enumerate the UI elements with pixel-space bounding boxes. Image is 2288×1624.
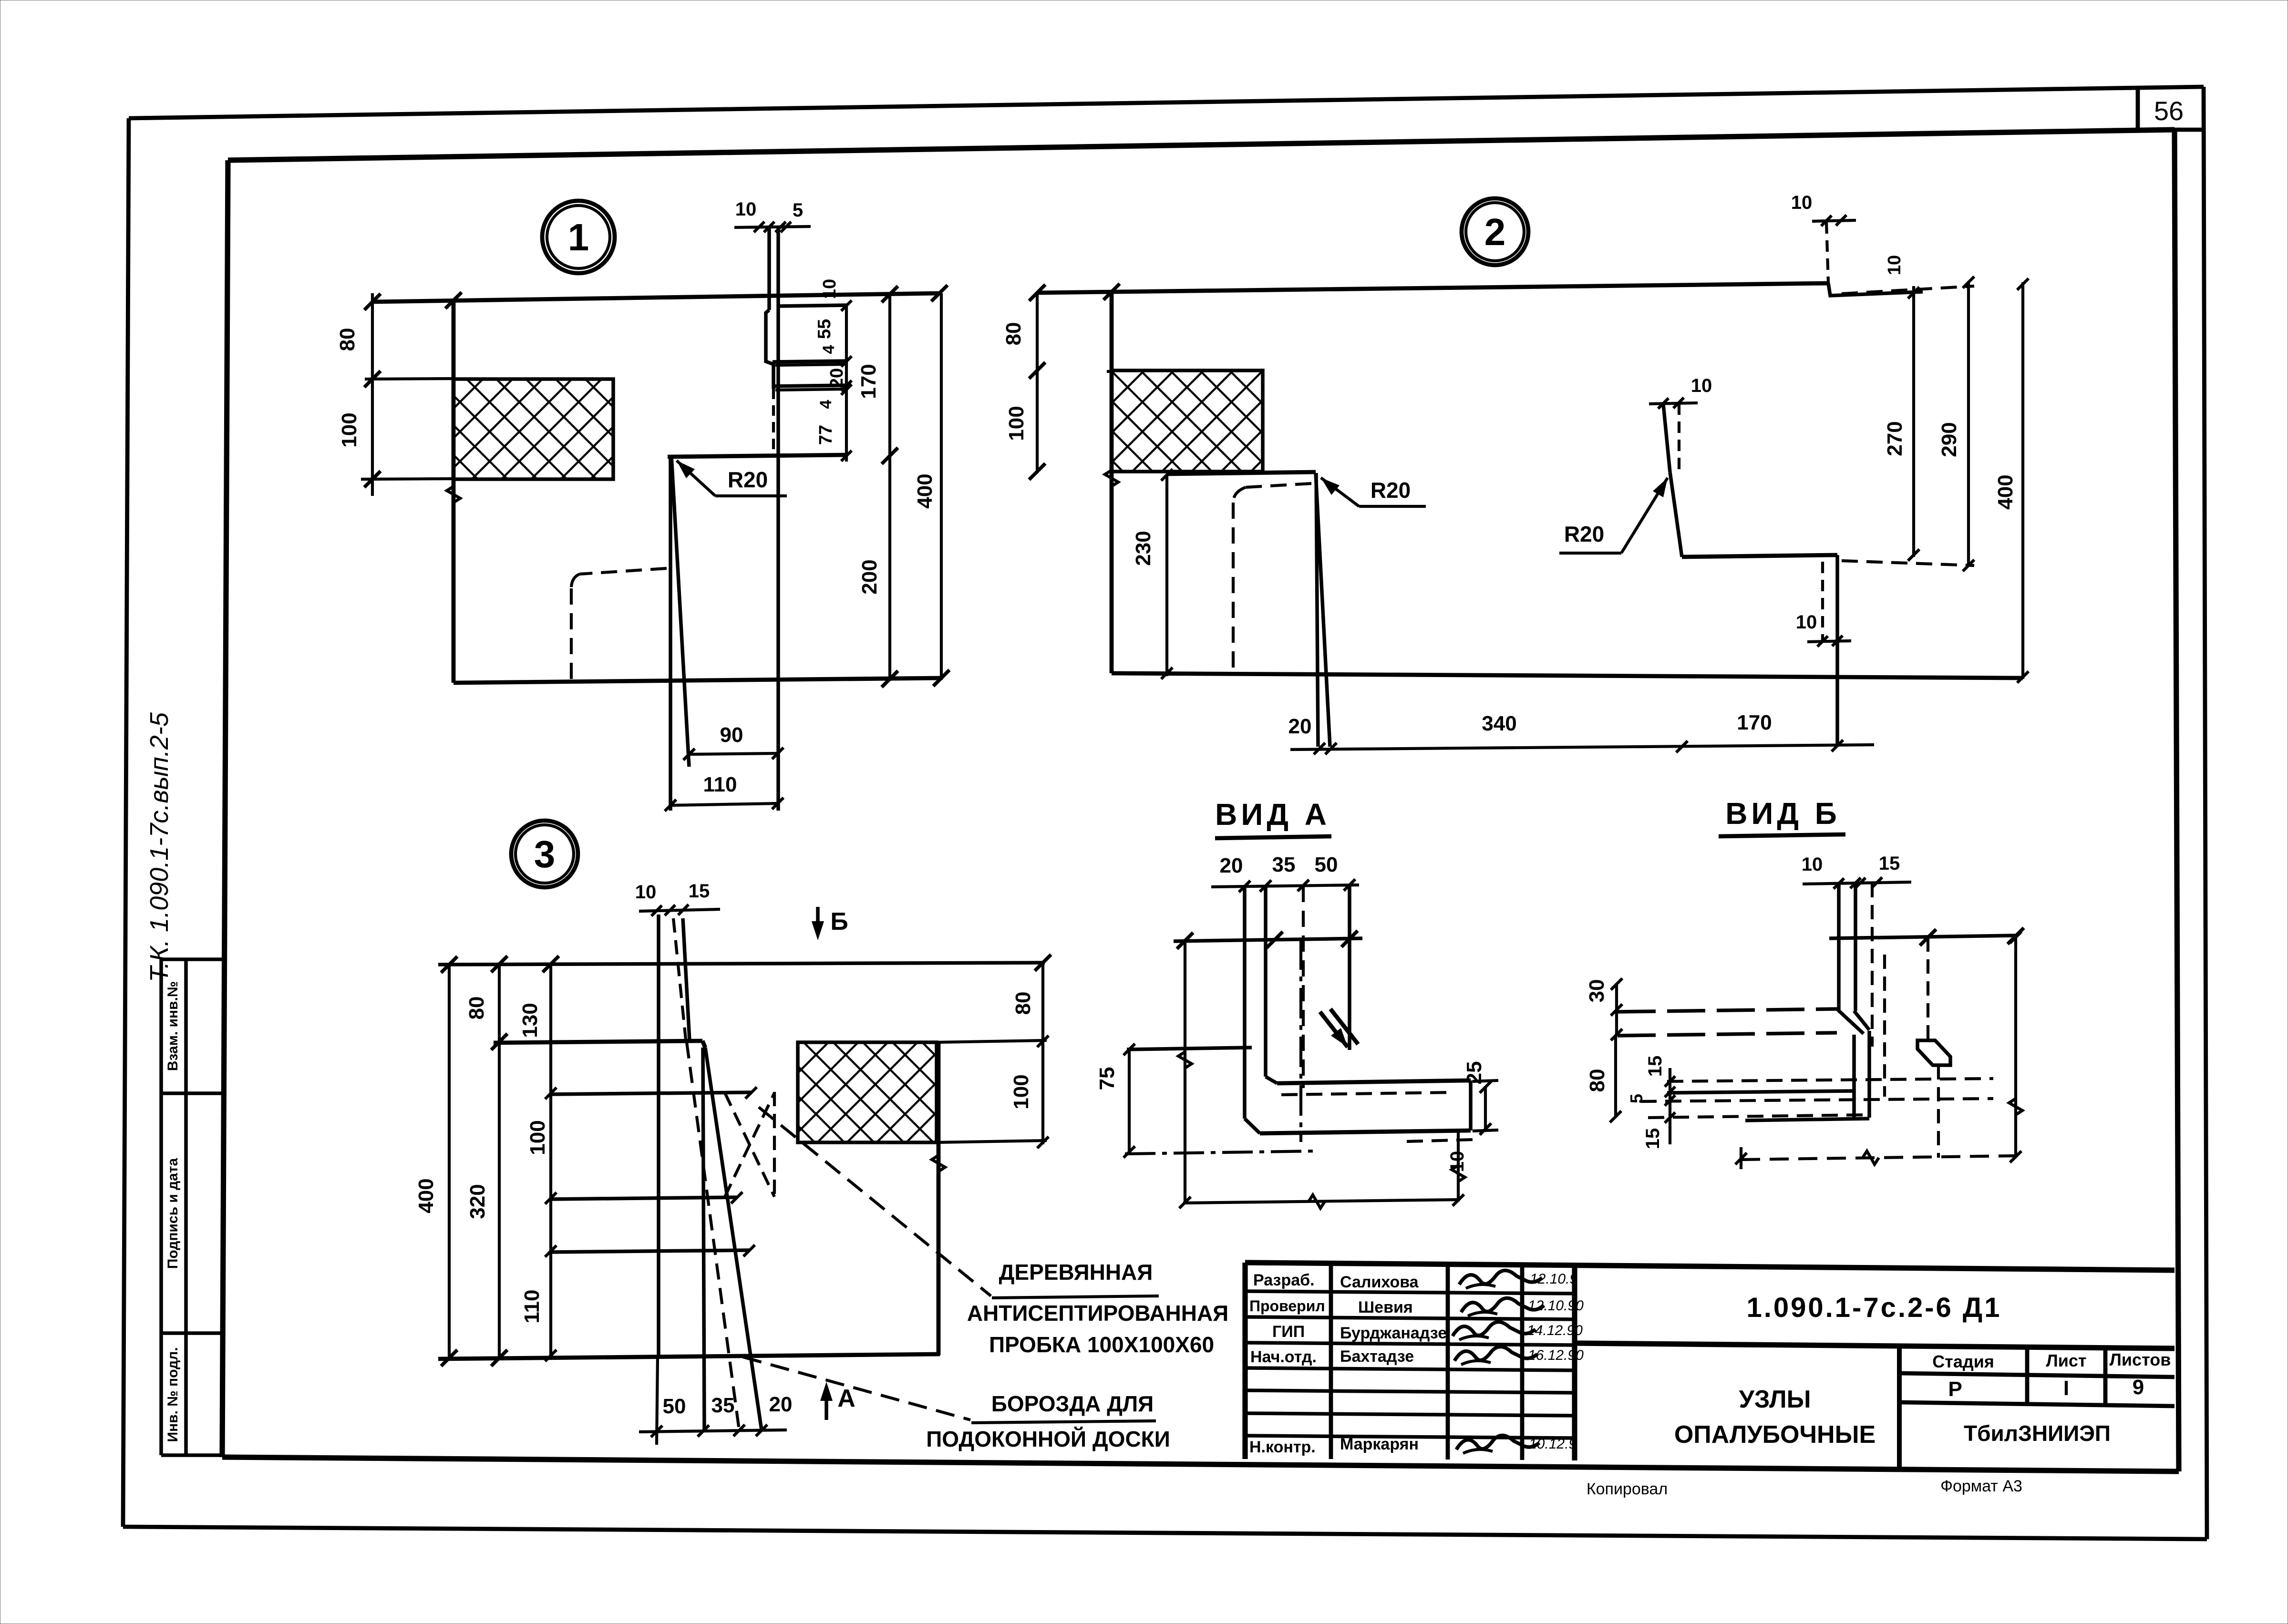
svg-text:12.10.9: 12.10.9 xyxy=(1530,1271,1577,1287)
svg-text:R20: R20 xyxy=(1371,478,1411,503)
svg-text:75: 75 xyxy=(1095,1067,1119,1090)
svg-text:230: 230 xyxy=(1132,531,1155,565)
svg-text:Разраб.: Разраб. xyxy=(1253,1271,1315,1289)
svg-text:20: 20 xyxy=(827,368,847,388)
svg-text:90: 90 xyxy=(720,723,743,747)
svg-text:4: 4 xyxy=(817,400,835,409)
svg-text:35: 35 xyxy=(711,1394,735,1417)
svg-text:3: 3 xyxy=(534,833,556,875)
svg-text:Подпись и дата: Подпись и дата xyxy=(165,1158,181,1269)
svg-text:Р: Р xyxy=(1948,1377,1962,1401)
svg-text:15: 15 xyxy=(1879,853,1900,874)
svg-text:10: 10 xyxy=(735,199,757,220)
svg-text:320: 320 xyxy=(466,1184,489,1219)
svg-text:110: 110 xyxy=(703,773,737,796)
svg-text:ГИП: ГИП xyxy=(1272,1323,1305,1341)
svg-text:10: 10 xyxy=(1802,854,1823,875)
svg-text:16.12.90: 16.12.90 xyxy=(1528,1347,1584,1363)
svg-text:25: 25 xyxy=(1463,1061,1486,1085)
svg-text:Формат А3: Формат А3 xyxy=(1940,1477,2022,1495)
svg-text:Проверил: Проверил xyxy=(1249,1297,1325,1315)
svg-text:ПОДОКОННОЙ ДОСКИ: ПОДОКОННОЙ ДОСКИ xyxy=(926,1427,1170,1451)
svg-text:4: 4 xyxy=(820,345,838,354)
svg-text:12.10.90: 12.10.90 xyxy=(1528,1298,1584,1314)
svg-text:56: 56 xyxy=(2154,96,2184,126)
svg-text:1: 1 xyxy=(568,216,589,258)
svg-text:400: 400 xyxy=(1994,474,2017,509)
svg-text:80: 80 xyxy=(1586,1069,1609,1092)
svg-text:35: 35 xyxy=(1272,853,1296,876)
svg-text:50: 50 xyxy=(663,1395,686,1418)
svg-text:400: 400 xyxy=(414,1178,438,1213)
svg-text:5: 5 xyxy=(793,200,803,221)
svg-text:130: 130 xyxy=(518,1003,542,1038)
svg-text:15: 15 xyxy=(689,881,710,902)
svg-text:Нач.отд.: Нач.отд. xyxy=(1250,1348,1317,1366)
svg-text:R20: R20 xyxy=(728,467,768,492)
svg-text:77: 77 xyxy=(816,425,836,445)
svg-text:Листов: Листов xyxy=(2110,1350,2171,1369)
svg-text:ДЕРЕВЯННАЯ: ДЕРЕВЯННАЯ xyxy=(999,1260,1153,1285)
svg-text:10: 10 xyxy=(1885,255,1905,275)
svg-text:Шевия: Шевия xyxy=(1358,1298,1413,1316)
svg-text:ОПАЛУБОЧНЫЕ: ОПАЛУБОЧНЫЕ xyxy=(1674,1421,1876,1449)
svg-text:14.12.90: 14.12.90 xyxy=(1527,1323,1583,1338)
svg-text:Н.контр.: Н.контр. xyxy=(1249,1438,1316,1456)
svg-text:Б: Б xyxy=(830,908,848,935)
svg-text:80: 80 xyxy=(465,997,488,1020)
svg-text:R20: R20 xyxy=(1564,522,1604,546)
svg-text:80: 80 xyxy=(1011,992,1035,1015)
svg-text:50: 50 xyxy=(1315,853,1338,876)
svg-text:80: 80 xyxy=(336,328,359,351)
svg-text:340: 340 xyxy=(1482,712,1516,735)
svg-text:100: 100 xyxy=(1010,1074,1033,1109)
svg-text:20: 20 xyxy=(1288,715,1312,738)
svg-text:290: 290 xyxy=(1938,422,1961,457)
svg-text:100: 100 xyxy=(1005,406,1028,441)
svg-text:Копировал: Копировал xyxy=(1587,1480,1668,1498)
svg-text:Бурджанадзе: Бурджанадзе xyxy=(1340,1324,1447,1342)
svg-text:15: 15 xyxy=(1645,1056,1666,1077)
svg-text:10: 10 xyxy=(1691,375,1712,396)
svg-text:80: 80 xyxy=(1002,322,1025,346)
svg-text:30: 30 xyxy=(1585,979,1608,1003)
svg-text:20: 20 xyxy=(769,1393,793,1416)
svg-text:УЗЛЫ: УЗЛЫ xyxy=(1739,1386,1811,1413)
svg-text:Салихова: Салихова xyxy=(1340,1273,1419,1291)
svg-text:Взам. инв.№: Взам. инв.№ xyxy=(165,981,181,1071)
svg-text:Бахтадзе: Бахтадзе xyxy=(1340,1347,1414,1366)
svg-text:Стадия: Стадия xyxy=(1932,1352,1994,1371)
svg-text:10: 10 xyxy=(820,279,840,299)
svg-text:400: 400 xyxy=(913,473,937,508)
svg-text:БОРОЗДА ДЛЯ: БОРОЗДА ДЛЯ xyxy=(991,1391,1154,1416)
svg-text:ТбилЗНИИЭП: ТбилЗНИИЭП xyxy=(1964,1421,2111,1446)
svg-text:ВИД А: ВИД А xyxy=(1215,797,1330,832)
svg-text:15: 15 xyxy=(1642,1128,1663,1150)
svg-text:ВИД Б: ВИД Б xyxy=(1725,796,1841,831)
svg-text:170: 170 xyxy=(857,364,880,399)
svg-text:2: 2 xyxy=(1484,211,1506,253)
svg-text:ПРОБКА 100X100X60: ПРОБКА 100X100X60 xyxy=(989,1332,1214,1357)
svg-text:55: 55 xyxy=(814,319,835,339)
svg-text:200: 200 xyxy=(858,559,881,594)
svg-text:170: 170 xyxy=(1737,711,1772,734)
svg-text:1.090.1-7с.2-6 Д1: 1.090.1-7с.2-6 Д1 xyxy=(1747,1292,2002,1323)
svg-text:I: I xyxy=(2063,1377,2069,1400)
svg-text:10: 10 xyxy=(1796,612,1817,633)
svg-text:10: 10 xyxy=(635,882,657,903)
svg-text:20: 20 xyxy=(1220,854,1243,877)
svg-text:Инв. № подл.: Инв. № подл. xyxy=(165,1347,181,1442)
svg-text:Лист: Лист xyxy=(2046,1351,2086,1370)
svg-text:9: 9 xyxy=(2133,1376,2144,1399)
svg-text:Т.К. 1.090.1-7с.вып.2-5: Т.К. 1.090.1-7с.вып.2-5 xyxy=(145,712,174,982)
svg-text:10.12.9: 10.12.9 xyxy=(1529,1436,1577,1452)
svg-text:100: 100 xyxy=(526,1120,549,1155)
svg-text:А: А xyxy=(837,1385,855,1412)
svg-text:270: 270 xyxy=(1883,421,1907,456)
svg-text:Маркарян: Маркарян xyxy=(1340,1435,1419,1453)
svg-text:10: 10 xyxy=(1791,192,1813,213)
svg-text:110: 110 xyxy=(520,1290,544,1324)
svg-text:АНТИСЕПТИРОВАННАЯ: АНТИСЕПТИРОВАННАЯ xyxy=(967,1301,1228,1326)
svg-text:100: 100 xyxy=(338,412,361,447)
